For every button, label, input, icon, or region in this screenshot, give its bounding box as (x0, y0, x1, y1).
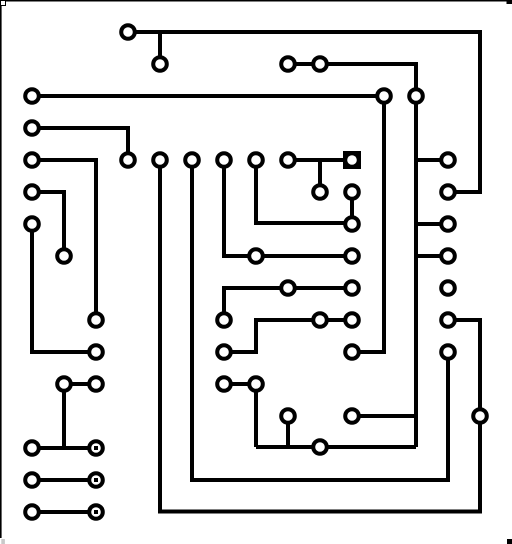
pad P41 at (64,384) (57, 377, 71, 391)
pad P48 at (320,447) (313, 440, 327, 454)
pad P18 at (32,192) (25, 185, 39, 199)
wire net2 branch from pad (288,416) down to y=447 (286, 416, 290, 447)
pad P42 at (96,384) (89, 377, 103, 391)
wire net2 branch from pad (352,416) right to x=416 (352, 414, 416, 418)
wire net2 stub to pad (448,160) (416, 158, 448, 162)
wire net15 vertical x=64 down to y=448 (62, 384, 66, 448)
pad P15 at (288,160) (281, 153, 295, 167)
pad P28 at (448,256) (441, 249, 455, 263)
pad P52 with drill dot at (96,480) (89, 473, 103, 487)
wire net5 y=160 right then down x=96 to pad (96,320) (32, 160, 96, 320)
wire net4 y=128 right then down to pad (128,160) (32, 128, 128, 160)
pad P51 at (32,480) (25, 473, 39, 487)
pad P49 at (32,448) (25, 441, 39, 455)
pad P27 at (352,256) (345, 249, 359, 263)
pad P44 at (256,384) (249, 377, 263, 391)
wire net8 x=160 down, y=512 right, x=480 up, to pad (448,320) (160, 160, 480, 512)
pad P11 at (160,160) (153, 153, 167, 167)
pad P20 at (352,192) (345, 185, 359, 199)
wire net13 from pad (224,320) up then right y=288 to pad (352,288) (224, 288, 352, 320)
wire net10 x=224 down then right y=256 to pad (352,256) (224, 160, 352, 256)
wire net2 horizontal y=447 left to x=256 (256, 445, 416, 449)
wire net1 branch down to pad at (160,64) (158, 32, 162, 64)
pad P21 at (448,192) (441, 185, 455, 199)
pad P29 at (288,288) (281, 281, 295, 295)
pad P12 at (192,160) (185, 153, 199, 167)
pad P5 at (32,96) (25, 89, 39, 103)
pad P8 at (32,128) (25, 121, 39, 135)
pad P33 at (224,320) (217, 313, 231, 327)
pad P43 at (224,384) (217, 377, 231, 391)
pad P19 at (320,192) (313, 185, 327, 199)
wire net11 x=256 down then right y=224 to pad (352,224) (256, 160, 352, 223)
wire net16 y=480 pad row link (32, 478, 96, 482)
wire net11 link pads (352,192)-(352,224) (350, 192, 354, 224)
wire net2 long vertical x=416 down to y=447 (414, 96, 418, 447)
pad P47 at (480,416) (473, 409, 487, 423)
wire net12 y=160 from pad (288,160) to square pad (288, 158, 352, 162)
pad P9 at (32,160) (25, 153, 39, 167)
pad P34 at (320,320) (313, 313, 327, 327)
pad P50 with drill dot at (96,448) (89, 441, 103, 455)
pad P24 at (448,224) (441, 217, 455, 231)
pad P36 at (448,320) (441, 313, 455, 327)
pad P30 at (352,288) (345, 281, 359, 295)
pad P32 at (96,320) (89, 313, 103, 327)
pad P26 at (256,256) (249, 249, 263, 263)
pad P45 at (288,416) (281, 409, 295, 423)
wire net9 x=192 down, y=480 right, x=448 up to pad (448,352) (192, 160, 448, 480)
pad P38 at (224,352) (217, 345, 231, 359)
wire net7 x=32 down then right to pad (96,352) (32, 224, 96, 352)
wire net2 vertical x=256 up to pad (256,384) (254, 384, 258, 447)
wire net2 stub to pad (448,256) (416, 254, 448, 258)
wire net15 link pads (64,384)-(96,384) (64, 382, 96, 386)
pad P40 at (448,352) (441, 345, 455, 359)
pad P7 at (416,96) (409, 89, 423, 103)
pad P23 at (352,224) (345, 217, 359, 231)
wire net12 branch down to pad (320,192) (318, 160, 322, 192)
pad P3 at (288,64) (281, 57, 295, 71)
pad P2 at (160,64) (153, 57, 167, 71)
pad P53 at (32,512) (25, 505, 39, 519)
pad P54 with drill dot at (96,512) (89, 505, 103, 519)
wire net2 stub to pad (448,224) (416, 222, 448, 226)
pad P31 at (448,288) (441, 281, 455, 295)
wire net15 y=448 pad row link (32, 446, 96, 450)
pad P14 at (256,160) (249, 153, 263, 167)
pad P1 at (128,32) (121, 25, 135, 39)
pad P35 at (352,320) (345, 313, 359, 327)
pad P25 at (64,256) (57, 249, 71, 263)
pad P46 at (352,416) (345, 409, 359, 423)
wire net6 y=192 right then down to pad (64,256) (32, 192, 64, 256)
pad P39 at (352,352) (345, 345, 359, 359)
pad P22 at (32,224) (25, 217, 39, 231)
wire net3 long horizontal y=96 (32, 94, 384, 98)
wire net2 y=64 run right then down to pad (416,96) (288, 64, 416, 96)
wire net17 y=512 pad row link (32, 510, 96, 514)
wire net1 top horizontal y=32 to right edge down to pad R2 (128, 32, 480, 192)
wire net3 vertical x=384 down then left to pad (352,352) (352, 96, 384, 352)
wire net14 from pad (224,352) right, up x=256, right y=320 to pad (352,320) (224, 320, 352, 352)
square pad P16 pin 1 at (352,160) (343, 151, 361, 169)
pad P13 at (224,160) (217, 153, 231, 167)
wire net2 link pads (224,384)-(256,384) (224, 382, 256, 386)
pad P10 at (128,160) (121, 153, 135, 167)
pad P4 at (320,64) (313, 57, 327, 71)
pad P6 at (384,96) (377, 89, 391, 103)
pad P37 at (96,352) (89, 345, 103, 359)
pad P17 at (448,160) (441, 153, 455, 167)
